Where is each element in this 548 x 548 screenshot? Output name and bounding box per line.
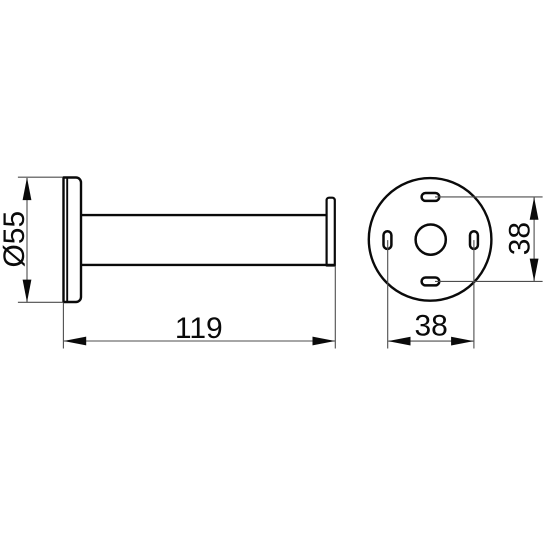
wall plate (side profile) <box>64 178 82 303</box>
end flange <box>327 198 335 266</box>
tube top line <box>80 214 327 216</box>
right slot <box>470 231 478 249</box>
center hole <box>416 225 446 255</box>
svg-text:119: 119 <box>175 312 223 345</box>
big circle <box>369 178 492 301</box>
tube bottom line <box>80 264 335 266</box>
svg-text:38: 38 <box>415 310 448 343</box>
top slot <box>422 193 440 201</box>
plate inner edge line <box>66 178 68 302</box>
svg-text:38: 38 <box>504 222 537 255</box>
svg-text:Ø55: Ø55 <box>0 211 31 268</box>
bottom slot <box>422 278 440 286</box>
left slot <box>384 231 392 249</box>
